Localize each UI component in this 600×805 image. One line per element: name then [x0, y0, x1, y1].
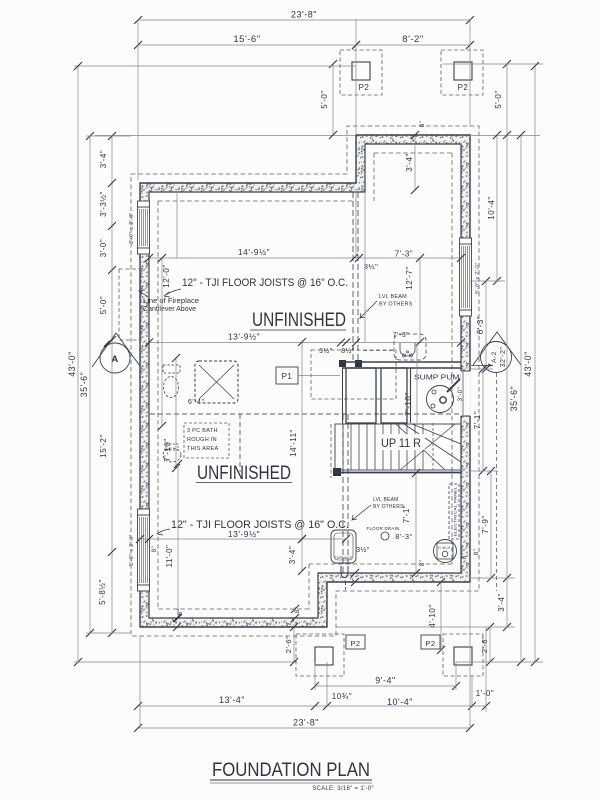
fixture rough-in lower	[163, 448, 181, 462]
dim line 13-4 / 10-4	[138, 705, 486, 707]
post	[339, 360, 346, 367]
svg-text:8½": 8½"	[341, 347, 355, 355]
section marker 2/A-2	[473, 332, 521, 365]
dim 7-10 stair	[416, 342, 418, 423]
floor drain	[381, 532, 389, 540]
toilet rough-in	[163, 365, 180, 373]
fireplace cantilever dashed	[119, 269, 141, 340]
right chain	[496, 135, 498, 281]
svg-text:9'-4": 9'-4"	[375, 676, 395, 686]
door opening 3-0 right wall	[460, 371, 471, 416]
electrical panel	[449, 484, 459, 539]
svg-text:P2: P2	[359, 83, 370, 92]
svg-text:8": 8"	[474, 549, 480, 555]
svg-text:BY OTHERS: BY OTHERS	[373, 504, 404, 510]
stair enclosure wall 2	[381, 368, 407, 423]
svg-text:8": 8"	[462, 553, 468, 559]
pier pad P2 bottom-right	[443, 634, 483, 676]
svg-text:P2: P2	[458, 83, 469, 92]
svg-text:ROUGH IN: ROUGH IN	[187, 437, 217, 443]
pier pad P2 bottom-left	[296, 634, 344, 676]
svg-text:Line of Fireplace: Line of Fireplace	[143, 298, 199, 305]
dim 4-10	[440, 582, 442, 650]
svg-text:7'-3": 7'-3"	[395, 250, 413, 259]
foundation wall band (stippled concrete)	[140, 135, 470, 627]
svg-text:15'-2": 15'-2"	[99, 434, 108, 457]
svg-text:43'-0": 43'-0"	[523, 351, 533, 376]
svg-text:P2: P2	[350, 639, 360, 648]
svg-text:FURNACE: FURNACE	[334, 556, 353, 560]
section marker A	[92, 333, 140, 367]
svg-text:23'-8": 23'-8"	[293, 718, 319, 728]
svg-text:5'-0" x 2'-0": 5'-0" x 2'-0"	[129, 534, 135, 566]
dim 14-9.5	[149, 257, 461, 259]
extension x=177	[176, 192, 178, 258]
svg-text:5'-0" x 2'-0": 5'-0" x 2'-0"	[475, 262, 481, 294]
svg-text:LVL BEAM: LVL BEAM	[379, 294, 407, 300]
svg-text:14'-9½": 14'-9½"	[238, 247, 270, 257]
svg-text:5'-0": 5'-0"	[494, 90, 503, 108]
furnace	[331, 530, 356, 563]
svg-text:2'-6": 2'-6"	[284, 636, 293, 653]
dim 13-9.5 upper	[149, 342, 461, 344]
svg-text:H.W.H.: H.W.H.	[438, 546, 452, 550]
interior strip footing dashed	[150, 413, 460, 415]
laundry tub	[363, 350, 394, 352]
dim 14-11 vertical	[301, 342, 303, 539]
dim 8-2 top	[356, 44, 470, 46]
pier pad P2 top-left	[340, 50, 382, 95]
svg-text:35'-6": 35'-6"	[509, 386, 519, 411]
pier pad P2 top-right	[441, 50, 483, 95]
dim 7-10 vertical left	[175, 358, 177, 468]
svg-text:3'-4": 3'-4"	[99, 150, 108, 168]
svg-text:P1: P1	[282, 372, 293, 381]
dim 11-0 vertical	[177, 464, 179, 618]
dim 12-7 vertical	[419, 258, 421, 342]
svg-text:Cantilever Above: Cantilever Above	[143, 306, 196, 313]
svg-text:5'-0": 5'-0"	[99, 296, 108, 314]
shower pan	[195, 361, 238, 403]
svg-text:UP 11 R: UP 11 R	[381, 438, 421, 450]
dim 43-0 right	[534, 66, 536, 662]
svg-text:3½": 3½"	[356, 546, 370, 554]
svg-text:4'-10": 4'-10"	[428, 604, 437, 627]
svg-text:7'-3": 7'-3"	[393, 332, 409, 339]
svg-text:10¾": 10¾"	[332, 692, 352, 701]
svg-text:7'-9": 7'-9"	[481, 515, 490, 533]
section cut line dashed	[496, 373, 498, 591]
beam pocket at wall	[341, 566, 348, 578]
svg-text:8'-2": 8'-2"	[402, 34, 423, 45]
stair top wall (bold)	[342, 361, 461, 363]
svg-text:12'-7": 12'-7"	[405, 266, 414, 289]
svg-text:8": 8"	[420, 560, 426, 566]
dim 9-4	[315, 685, 456, 687]
svg-text:1'-0": 1'-0"	[476, 689, 494, 698]
svg-text:3 PC BATH: 3 PC BATH	[187, 428, 218, 434]
window 5-0x2-0 right wall	[460, 244, 472, 310]
dim 3-4 lower	[301, 539, 303, 571]
svg-text:10'-4": 10'-4"	[387, 697, 413, 707]
svg-text:SUMP PUMP: SUMP PUMP	[414, 375, 465, 382]
svg-text:5'-0": 5'-0"	[320, 90, 329, 108]
dim 3-4 step	[414, 135, 416, 190]
svg-text:12" - TJI FLOOR JOISTS @ 16" O: 12" - TJI FLOOR JOISTS @ 16" O.C.	[182, 277, 348, 289]
dim 43-0 left	[77, 66, 79, 662]
sump pump	[427, 386, 454, 413]
svg-text:3'-4": 3'-4"	[497, 593, 506, 611]
svg-text:13'-4": 13'-4"	[219, 695, 245, 705]
hot water heater	[434, 540, 457, 563]
svg-text:11'-0": 11'-0"	[165, 545, 174, 568]
svg-text:3'-0": 3'-0"	[458, 387, 464, 401]
svg-text:3'-3½": 3'-3½"	[99, 191, 108, 217]
svg-text:A: A	[111, 354, 118, 365]
window 5-0x2-0 left wall lower	[138, 515, 150, 585]
svg-text:7'-10": 7'-10"	[163, 438, 172, 461]
P1 label	[276, 367, 298, 384]
inner footing dashed line	[158, 200, 356, 202]
svg-text:7'-10": 7'-10"	[404, 392, 413, 415]
wall extension line left	[95, 135, 356, 137]
svg-text:3'-4": 3'-4"	[405, 153, 414, 171]
dim 12-0 vertical	[161, 258, 163, 426]
svg-text:8'-3": 8'-3"	[395, 532, 412, 541]
svg-text:12'-0": 12'-0"	[162, 264, 171, 287]
dim 13-9.5 lower	[138, 538, 346, 540]
extension x=356/365	[355, 192, 357, 258]
left chain dims	[111, 136, 113, 633]
svg-text:35'-6": 35'-6"	[79, 372, 89, 397]
svg-text:8": 8"	[420, 121, 426, 127]
svg-text:3'-0" x 2'-0": 3'-0" x 2'-0"	[129, 212, 135, 244]
svg-text:THIS AREA: THIS AREA	[187, 446, 218, 452]
svg-text:13'-9½": 13'-9½"	[228, 332, 260, 342]
dim 35-6 right	[520, 135, 522, 662]
svg-text:14'-11": 14'-11"	[289, 429, 298, 457]
dim 35-6 left	[89, 136, 91, 633]
svg-text:10'-4": 10'-4"	[487, 196, 496, 219]
svg-text:3'-0": 3'-0"	[99, 239, 108, 257]
dim 5-0 porch right	[506, 64, 508, 135]
dim 23-8 bottom	[138, 727, 470, 729]
outer footing dashed line	[131, 126, 479, 636]
svg-text:43'-0": 43'-0"	[67, 351, 77, 376]
dim 15-6 top	[138, 44, 356, 46]
dim 2-6 bottom-left	[293, 627, 295, 662]
window 3-0x2-0 left wall	[138, 207, 150, 248]
svg-text:23'-8": 23'-8"	[291, 10, 317, 20]
stair enclosure wall 1	[346, 368, 376, 423]
dim 5-0 porch left	[332, 64, 334, 135]
svg-text:ELECTRICAL PANEL: ELECTRICAL PANEL	[454, 487, 458, 537]
LVL beam lower (dashed double line)	[342, 414, 344, 573]
post	[355, 360, 362, 367]
stair left wall line	[342, 368, 344, 423]
svg-text:3½": 3½"	[319, 347, 333, 355]
svg-text:3½": 3½"	[364, 262, 379, 271]
stairs	[335, 424, 461, 470]
svg-text:6'-4": 6'-4"	[188, 399, 204, 406]
svg-text:UNFINISHED: UNFINISHED	[252, 310, 346, 331]
svg-text:FOUNDATION PLAN: FOUNDATION PLAN	[212, 759, 370, 781]
svg-text:A-2: A-2	[491, 351, 498, 363]
post	[333, 468, 341, 476]
svg-text:7'-1": 7'-1"	[402, 505, 411, 523]
svg-text:13'-9½": 13'-9½"	[228, 529, 260, 539]
svg-text:32'-2": 32'-2"	[500, 347, 507, 368]
dim 7-1 interior	[415, 473, 417, 573]
svg-text:5'-8½": 5'-8½"	[98, 579, 107, 605]
svg-text:P2: P2	[425, 639, 435, 648]
svg-text:3'-4": 3'-4"	[288, 546, 297, 564]
bath note box	[184, 423, 229, 458]
svg-text:FLOOR DRAIN: FLOOR DRAIN	[367, 526, 400, 531]
svg-text:SCALE: 3/16" = 1'-0": SCALE: 3/16" = 1'-0"	[312, 786, 374, 792]
svg-text:BY OTHERS: BY OTHERS	[379, 302, 413, 308]
pad under posts (dashed)	[311, 350, 396, 399]
svg-text:LVL BEAM: LVL BEAM	[373, 497, 399, 503]
LVL beam upper (dashed double line)	[352, 192, 354, 362]
svg-text:8": 8"	[152, 546, 158, 552]
svg-text:2'-6": 2'-6"	[480, 636, 489, 653]
svg-text:15'-6": 15'-6"	[233, 34, 260, 45]
svg-text:7'-1": 7'-1"	[473, 411, 482, 429]
svg-text:UNFINISHED: UNFINISHED	[197, 463, 291, 484]
svg-text:6'-3": 6'-3"	[476, 316, 485, 334]
dim 23-8 top	[138, 19, 470, 21]
